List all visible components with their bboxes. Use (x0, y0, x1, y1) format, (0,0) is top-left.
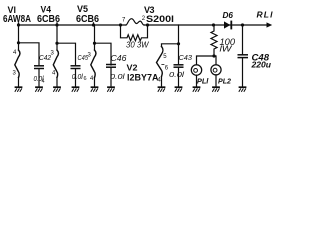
svg-text:3: 3 (13, 71, 17, 77)
svg-text:0.0l: 0.0l (110, 74, 125, 81)
svg-text:C46: C46 (111, 54, 128, 63)
svg-text:4: 4 (90, 76, 94, 82)
svg-text:4: 4 (42, 79, 45, 85)
svg-text:220u: 220u (250, 60, 271, 70)
svg-text:V2: V2 (127, 63, 138, 73)
svg-text:0.0l: 0.0l (72, 74, 83, 81)
svg-text:l2BY7A: l2BY7A (127, 73, 159, 84)
svg-text:PLl: PLl (197, 77, 209, 86)
svg-text:7: 7 (122, 17, 126, 23)
svg-text:S200l: S200l (146, 14, 174, 25)
svg-text:6: 6 (165, 65, 169, 71)
svg-text:C43: C43 (179, 53, 193, 62)
svg-text:3: 3 (88, 53, 92, 59)
svg-text:D6: D6 (223, 11, 234, 20)
svg-text:6AW8A: 6AW8A (3, 13, 31, 25)
svg-text:30 3W: 30 3W (126, 41, 150, 50)
svg-text:6CB6: 6CB6 (76, 13, 99, 25)
svg-text:5: 5 (163, 54, 167, 60)
svg-text:4: 4 (13, 50, 17, 56)
svg-text:4: 4 (52, 71, 56, 77)
svg-text:6: 6 (84, 76, 87, 82)
svg-text:RLl: RLl (257, 10, 274, 20)
svg-text:6CB6: 6CB6 (37, 13, 60, 25)
svg-text:0.0l: 0.0l (169, 72, 185, 79)
svg-text:3: 3 (51, 51, 55, 57)
svg-text:lW: lW (220, 44, 233, 54)
svg-text:PL2: PL2 (218, 77, 232, 86)
